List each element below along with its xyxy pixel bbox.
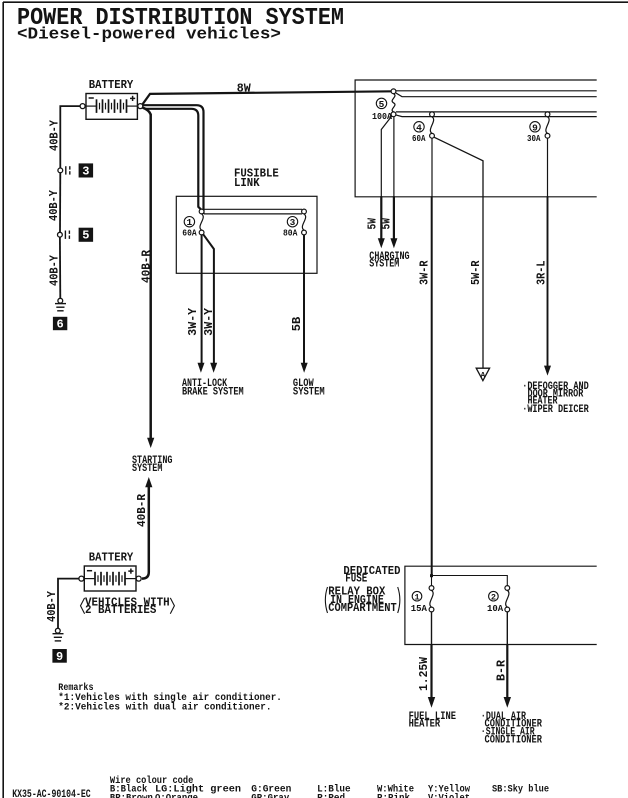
svg-text:40B-Y: 40B-Y bbox=[46, 591, 59, 622]
svg-text:3W-R: 3W-R bbox=[419, 260, 432, 285]
svg-text:60A: 60A bbox=[182, 227, 197, 238]
svg-text:SYSTEM: SYSTEM bbox=[132, 463, 163, 475]
svg-text:FUSE: FUSE bbox=[345, 572, 367, 586]
svg-text:10A: 10A bbox=[487, 603, 503, 614]
svg-text:B-R: B-R bbox=[495, 660, 508, 681]
svg-text:60A: 60A bbox=[412, 133, 426, 144]
svg-text:BATTERY: BATTERY bbox=[89, 78, 134, 92]
svg-text:SYSTEM: SYSTEM bbox=[369, 258, 399, 270]
svg-text:5W: 5W bbox=[380, 218, 393, 230]
svg-text:KX35-AC-90104-EC: KX35-AC-90104-EC bbox=[12, 789, 91, 798]
svg-text:*2:Vehicles with dual air cond: *2:Vehicles with dual air conditioner. bbox=[58, 702, 271, 714]
svg-text:40B-Y: 40B-Y bbox=[48, 190, 61, 221]
svg-text:40B-Y: 40B-Y bbox=[49, 120, 62, 151]
svg-text:SB:Sky blue: SB:Sky blue bbox=[492, 783, 549, 795]
svg-text:8W: 8W bbox=[237, 82, 252, 96]
svg-text:1: 1 bbox=[414, 593, 419, 603]
svg-text:CONDITIONER: CONDITIONER bbox=[485, 735, 543, 747]
svg-text:2: 2 bbox=[491, 593, 496, 603]
svg-text:5B: 5B bbox=[291, 317, 304, 332]
svg-text:5W-R: 5W-R bbox=[470, 260, 483, 285]
svg-text:6: 6 bbox=[56, 317, 63, 331]
svg-text:4: 4 bbox=[416, 122, 422, 133]
svg-text:5W: 5W bbox=[367, 218, 380, 230]
svg-text:40B-R: 40B-R bbox=[141, 250, 154, 283]
svg-text:3: 3 bbox=[290, 217, 296, 228]
svg-text:R:Red: R:Red bbox=[317, 792, 345, 798]
svg-text:15A: 15A bbox=[411, 603, 427, 614]
svg-text:3: 3 bbox=[82, 164, 89, 178]
svg-text:A: A bbox=[480, 372, 485, 381]
svg-text:100A: 100A bbox=[372, 111, 392, 122]
svg-text:BATTERY: BATTERY bbox=[89, 551, 134, 565]
svg-text:HEATER: HEATER bbox=[409, 719, 441, 731]
svg-text:V:Violet: V:Violet bbox=[428, 792, 470, 798]
svg-text:9: 9 bbox=[532, 122, 538, 133]
svg-text:COMPARTMENT: COMPARTMENT bbox=[328, 601, 396, 615]
svg-text:3W-Y: 3W-Y bbox=[187, 308, 200, 336]
svg-text:BR:Brown: BR:Brown bbox=[110, 793, 153, 798]
svg-text:40B-R: 40B-R bbox=[136, 494, 149, 527]
svg-text:40B-Y: 40B-Y bbox=[49, 255, 62, 286]
svg-text:5: 5 bbox=[379, 99, 385, 110]
svg-text:3W-Y: 3W-Y bbox=[203, 308, 216, 336]
svg-text:<Diesel-powered vehicles>: <Diesel-powered vehicles> bbox=[17, 26, 281, 45]
svg-text:LINK: LINK bbox=[234, 176, 260, 190]
svg-text:BRAKE SYSTEM: BRAKE SYSTEM bbox=[182, 387, 244, 399]
svg-text:P:Pink: P:Pink bbox=[377, 792, 410, 798]
svg-text:80A: 80A bbox=[283, 227, 298, 238]
svg-text:SYSTEM: SYSTEM bbox=[293, 387, 325, 399]
svg-text:2 BATTERIES: 2 BATTERIES bbox=[85, 603, 156, 617]
svg-text:1: 1 bbox=[187, 217, 193, 228]
svg-text:GR:Gray: GR:Gray bbox=[251, 793, 289, 798]
svg-text:·WIPER DEICER: ·WIPER DEICER bbox=[522, 404, 589, 416]
svg-text:3R-L: 3R-L bbox=[536, 260, 549, 285]
svg-text:O:Orange: O:Orange bbox=[155, 793, 198, 798]
svg-text:1.25W: 1.25W bbox=[418, 657, 431, 691]
svg-text:9: 9 bbox=[56, 650, 63, 664]
svg-text:30A: 30A bbox=[527, 133, 541, 144]
svg-text:5: 5 bbox=[82, 229, 89, 243]
